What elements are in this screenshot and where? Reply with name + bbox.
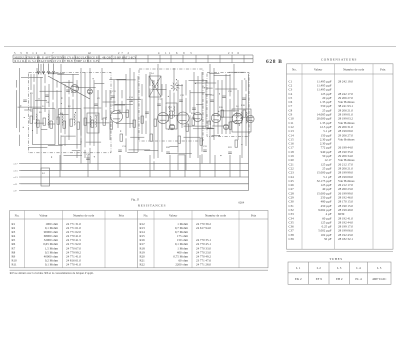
- wire: [16, 80, 18, 88]
- wire: [56, 80, 58, 88]
- shield box S2 (IF unit): [139, 69, 203, 141]
- junction: [61, 98, 62, 99]
- wire: [117, 80, 119, 128]
- resistor R7: [70, 119, 73, 126]
- wire: [165, 106, 167, 112]
- resistor R5: [57, 117, 60, 124]
- wire: [48, 123, 56, 125]
- svg-text:CONDENSATEURS: CONDENSATEURS: [321, 57, 357, 61]
- wire: [56, 90, 58, 120]
- capacitor C4: [94, 103, 98, 105]
- wire: [185, 80, 187, 95]
- resistor R17: [170, 111, 173, 118]
- junction: [93, 78, 94, 79]
- wire: [205, 80, 207, 128]
- wire: [41, 128, 47, 130]
- wire: [34, 122, 44, 124]
- wire: [89, 148, 91, 164]
- svg-text:C39: C39: [289, 237, 295, 241]
- svg-text:4 11 6 9 3: 4 11 6 9 3: [158, 52, 194, 55]
- wire: [64, 155, 83, 157]
- wire: [169, 90, 171, 110]
- wire: [207, 127, 215, 129]
- wire: [48, 144, 63, 146]
- wire: [196, 104, 203, 106]
- resistor R8: [77, 122, 80, 129]
- wire: [97, 90, 99, 170]
- coil T1b: [157, 80, 158, 88]
- svg-text:MODULATRICE 6R. P. AVT. ANTENN: MODULATRICE 6R. P. AVT. ANTENNE CV 6 REG…: [15, 56, 137, 59]
- svg-text:Numéro de code: Numéro de code: [343, 68, 365, 72]
- capacitor C3: [66, 89, 70, 91]
- wire: [149, 72, 151, 86]
- junction: [204, 87, 205, 88]
- shield box S1 (tuning unit): [29, 72, 112, 153]
- coil T1a: [152, 80, 153, 88]
- wire: [141, 99, 143, 134]
- wire: [33, 84, 35, 120]
- IF transformer T1: [149, 76, 161, 97]
- svg-text:Numéro de code: Numéro de code: [205, 214, 227, 218]
- junction: [219, 93, 220, 94]
- wire: [103, 101, 116, 103]
- wire: [214, 75, 231, 77]
- wire: [24, 109, 31, 111]
- wire: [105, 110, 107, 120]
- wire: [177, 155, 179, 170]
- wire: [217, 120, 219, 134]
- wire: [245, 94, 247, 146]
- capacitor C2: [45, 94, 49, 96]
- wire: [63, 81, 73, 83]
- wire: [125, 74, 127, 136]
- wire: [165, 84, 167, 104]
- wire: [245, 80, 247, 91]
- wire: [76, 151, 78, 158]
- junction: [218, 111, 219, 112]
- junction: [195, 83, 196, 84]
- bus wire: [21, 183, 249, 185]
- tube L1: [111, 111, 123, 123]
- capacitor C6: [129, 99, 133, 101]
- coil box L1: [33, 109, 56, 145]
- junction wires: [60, 155, 240, 177]
- wire: [229, 74, 231, 96]
- wire: [44, 74, 46, 83]
- wire: [205, 94, 212, 96]
- tube L2: [158, 113, 169, 124]
- wire: [112, 104, 125, 106]
- svg-text:28 182 32.1: 28 182 32.1: [338, 237, 353, 241]
- pilot lamp: [247, 115, 254, 122]
- wire: [125, 138, 127, 152]
- wire: [173, 93, 175, 112]
- svg-text:No.: No.: [15, 214, 20, 218]
- resistor R22: [229, 122, 232, 129]
- junction: [244, 78, 245, 79]
- wire: [195, 82, 217, 84]
- terminal strip divider: [135, 55, 137, 63]
- svg-text:Prix: Prix: [119, 214, 125, 218]
- capacitor C7: [145, 111, 149, 113]
- junction: [38, 98, 39, 99]
- wire: [116, 122, 133, 124]
- wire: [80, 68, 82, 136]
- wire: [61, 81, 72, 83]
- wire: [237, 90, 239, 118]
- wire: [16, 90, 18, 128]
- wire: [178, 154, 186, 156]
- wire: [153, 161, 155, 170]
- resistor R15: [141, 116, 144, 123]
- wire: [127, 99, 141, 101]
- trimmer C22: [169, 124, 175, 130]
- svg-text:4687 D-0C: 4687 D-0C: [372, 277, 386, 281]
- wire: [184, 125, 207, 127]
- wire: [89, 68, 91, 145]
- wire: [214, 155, 216, 177]
- junction: [176, 79, 177, 80]
- bus wire: [21, 176, 249, 178]
- trimmer: [87, 89, 92, 94]
- svg-text:EK 2: EK 2: [295, 277, 302, 281]
- bus wire: [21, 169, 249, 171]
- svg-text:5 3 8 12: 5 3 8 12: [14, 52, 39, 55]
- coil T2a: [169, 106, 170, 117]
- wire: [225, 74, 227, 134]
- capacitor C1: [23, 99, 27, 101]
- wire: [177, 80, 179, 153]
- coil L1b: [48, 114, 49, 125]
- wire: [119, 155, 121, 177]
- wire: [149, 155, 151, 177]
- wire: [40, 77, 42, 170]
- resistor R14: [133, 120, 136, 127]
- wire: [59, 155, 61, 177]
- svg-text:No.: No.: [292, 68, 297, 72]
- output transformer T3: [232, 109, 251, 132]
- coil T3b: [241, 112, 242, 123]
- wire: [161, 98, 163, 152]
- trimmer C28: [223, 124, 228, 129]
- junction: [89, 93, 90, 94]
- svg-text:L 1: L 1: [296, 266, 301, 270]
- svg-text:Prix: Prix: [380, 68, 386, 72]
- svg-text:R11: R11: [12, 263, 18, 267]
- wire: [189, 90, 191, 113]
- wire: [151, 88, 166, 90]
- junction: [168, 129, 169, 130]
- wire: [141, 84, 143, 96]
- wire: [220, 110, 239, 112]
- terminal strip divider: [219, 55, 221, 63]
- wire: [35, 99, 47, 101]
- pin wire: [38, 64, 40, 75]
- resistor R1: [30, 116, 33, 123]
- wire: [149, 88, 151, 140]
- terminal strip divider: [111, 55, 113, 63]
- resistor R16: [154, 119, 157, 126]
- tube rectifier: [232, 113, 243, 124]
- wire: [127, 152, 138, 154]
- junction: [168, 96, 169, 97]
- svg-text:Voir Bobines: Voir Bobines: [338, 137, 355, 141]
- svg-text:L 2: L 2: [317, 266, 322, 270]
- tuning indicator lamp: [171, 82, 180, 91]
- wire: [87, 155, 89, 177]
- wire: [40, 64, 42, 75]
- capacitor C5: [111, 95, 115, 97]
- wire: [84, 150, 86, 158]
- wire: [117, 79, 136, 81]
- wire: [33, 74, 35, 82]
- switch box detail: [41, 168, 50, 186]
- bus stub: [19, 183, 21, 185]
- svg-text:EB 2: EB 2: [336, 277, 343, 281]
- svg-text:24 617 94.0: 24 617 94.0: [196, 226, 211, 230]
- resistor R10: [91, 120, 94, 127]
- wire: [72, 99, 74, 120]
- bus stub: [19, 190, 21, 192]
- wire: [190, 92, 205, 94]
- wire: [129, 68, 131, 99]
- capacitor C14: [86, 157, 90, 159]
- svg-text:Valeur: Valeur: [314, 68, 323, 72]
- wire: [84, 72, 86, 147]
- wire: [217, 80, 219, 117]
- coil L1a: [36, 114, 37, 125]
- junction: [120, 131, 121, 132]
- wire: [60, 135, 62, 170]
- bus wire: [21, 190, 249, 192]
- resistor R11: [103, 118, 106, 125]
- capacitor C17: [203, 149, 207, 151]
- resistor R21: [221, 110, 224, 117]
- junction: [24, 117, 25, 118]
- wire: [21, 76, 43, 78]
- wire: [189, 115, 191, 158]
- svg-text:4 7: 4 7: [44, 52, 57, 55]
- wire: [221, 80, 223, 134]
- terminal strip divider: [62, 55, 64, 63]
- wire: [48, 84, 50, 107]
- oscillator coil box L3: [87, 113, 99, 133]
- resistor R2: [37, 120, 40, 127]
- wire: [159, 114, 179, 116]
- pin wire: [43, 64, 45, 75]
- terminal strip divider: [123, 55, 125, 63]
- wire: [60, 64, 62, 133]
- wire: [239, 155, 241, 177]
- wire: [72, 74, 74, 97]
- wire: [130, 136, 144, 138]
- wire: [181, 84, 183, 128]
- wire: [129, 102, 131, 128]
- svg-text:628 B: 628 B: [266, 59, 283, 65]
- wire: [30, 93, 32, 113]
- coil T3a: [236, 112, 237, 123]
- wire: [161, 84, 163, 96]
- svg-text:L 3: L 3: [337, 266, 342, 270]
- svg-text:L 4: L 4: [356, 266, 361, 270]
- wire: [209, 64, 211, 125]
- junction: [219, 135, 220, 136]
- wire: [229, 71, 246, 73]
- resistor R6: [63, 121, 66, 128]
- wire: [57, 73, 79, 75]
- svg-text:RESISTANCES: RESISTANCES: [138, 203, 166, 207]
- wire: [76, 86, 96, 88]
- wire: [19, 135, 21, 146]
- capacitor C13: [242, 97, 246, 99]
- capacitor C16: [166, 151, 170, 153]
- terminal strip divider: [12, 55, 14, 63]
- wire: [197, 76, 199, 158]
- svg-text:R 6.1 R.C 1L 5.2 REACTI: R 6.1 R.C 1L 5.2 REACTION 4T 2 6 CV BLN …: [15, 60, 100, 63]
- wire: [109, 90, 111, 140]
- capacitor C10: [192, 107, 196, 109]
- junction: [32, 130, 33, 131]
- wire: [229, 155, 231, 177]
- resistor R13: [126, 110, 129, 117]
- wire: [64, 137, 66, 146]
- svg-text:27 2: 27 2: [118, 52, 131, 55]
- terminal strip divider: [37, 55, 39, 63]
- wire: [18, 106, 42, 108]
- svg-text:6264: 6264: [239, 202, 245, 205]
- wire: [231, 121, 237, 123]
- wire: [184, 136, 201, 138]
- wire: [176, 84, 183, 86]
- tube L3: [177, 112, 189, 124]
- terminal strip divider: [147, 55, 149, 63]
- wire: [193, 128, 214, 130]
- svg-text:No.: No.: [143, 214, 148, 218]
- wire: [109, 78, 126, 80]
- coil L2a: [62, 114, 63, 125]
- svg-text:Prix: Prix: [251, 214, 257, 218]
- wire: [169, 113, 171, 128]
- svg-text:Valeur: Valeur: [169, 214, 178, 218]
- terminal strip divider: [207, 55, 209, 63]
- wire: [121, 101, 123, 112]
- wire: [49, 73, 65, 75]
- terminal strip rule 2: [13, 58, 253, 60]
- pin wire: [48, 64, 50, 75]
- coil T3c: [246, 112, 247, 123]
- junction: [239, 125, 240, 126]
- terminal strip rule 1: [13, 54, 253, 56]
- svg-text:24 770 41.0: 24 770 41.0: [66, 263, 81, 267]
- antenna arrow: [206, 66, 210, 74]
- terminal strip divider: [159, 55, 161, 63]
- wire: [61, 135, 75, 137]
- resistor R9: [84, 118, 87, 125]
- svg-text:R.I: R.I: [42, 173, 45, 175]
- terminal strip divider: [170, 55, 172, 63]
- wire: [101, 68, 103, 120]
- wire: [241, 80, 243, 158]
- wire: [237, 120, 239, 140]
- wire: [68, 80, 70, 94]
- terminal strip divider: [25, 55, 27, 63]
- wire: [52, 102, 54, 120]
- wire: [209, 72, 219, 74]
- junction: [220, 155, 221, 156]
- capacitor C8: [157, 103, 161, 105]
- wire: [36, 68, 38, 134]
- wire: [233, 64, 235, 112]
- wire: [199, 155, 201, 177]
- wire: [86, 141, 101, 143]
- terminal strip divider: [243, 55, 245, 63]
- resistor R18: [186, 124, 189, 131]
- terminal strip divider: [231, 55, 233, 63]
- tuning cap C-gang: [71, 85, 79, 93]
- wire: [169, 155, 171, 177]
- IF transformer T2: [166, 103, 177, 129]
- wire: [212, 135, 220, 137]
- wire: [84, 107, 102, 109]
- terminal strip divider: [98, 55, 100, 63]
- junction: [241, 144, 242, 145]
- terminal strip divider: [87, 55, 89, 63]
- wire: [229, 99, 231, 134]
- wire: [153, 80, 155, 159]
- wire: [133, 72, 135, 152]
- capacitor C12: [222, 95, 226, 97]
- wire: [215, 88, 237, 90]
- junction: [71, 92, 72, 93]
- resistor R26: [178, 136, 181, 143]
- wire: [193, 72, 195, 120]
- wire: [145, 121, 147, 134]
- junction: [168, 120, 169, 121]
- wire: [137, 76, 139, 152]
- junction: [81, 141, 82, 142]
- svg-text:24 771 28.0: 24 771 28.0: [196, 263, 211, 267]
- wire: [115, 103, 133, 105]
- junction: [20, 105, 21, 106]
- wire: [213, 68, 215, 127]
- resistor R12: [110, 122, 113, 129]
- terminal strip divider: [195, 55, 197, 63]
- wire: [201, 72, 203, 152]
- svg-text:Valeur: Valeur: [39, 214, 48, 218]
- wire: [44, 86, 46, 112]
- wire: [19, 68, 21, 132]
- wire: [144, 150, 158, 152]
- wire: [207, 87, 213, 89]
- tube L5: [211, 113, 220, 122]
- svg-text:R22: R22: [140, 263, 146, 267]
- junction: [240, 118, 241, 119]
- svg-text:Numéro de code: Numéro de code: [73, 214, 95, 218]
- wire: [213, 129, 215, 140]
- wire: [220, 116, 233, 118]
- capacitor C9: [179, 99, 183, 101]
- coil L2b: [74, 114, 75, 125]
- svg-text:50 µF: 50 µF: [324, 237, 332, 241]
- terminal strip divider: [74, 55, 76, 63]
- svg-text:EL 4: EL 4: [355, 277, 362, 281]
- ganged tuning arrow: [48, 76, 90, 99]
- junction: [61, 103, 62, 104]
- wire: [212, 125, 224, 127]
- svg-text:28 242 19.0: 28 242 19.0: [338, 79, 353, 83]
- wire: [105, 90, 107, 107]
- resistor R27: [200, 138, 203, 145]
